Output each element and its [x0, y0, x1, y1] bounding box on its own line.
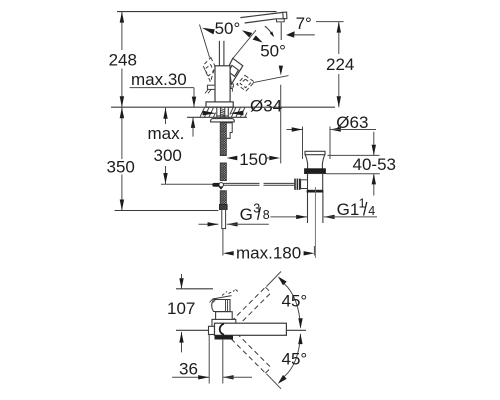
right dashed knob inner [240, 79, 250, 87]
drain trumpet neck [305, 155, 325, 169]
G3/8 dim arrows [199, 223, 219, 225]
150 left arrowhead [227, 156, 238, 160]
centerline [176, 329, 306, 331]
upper arm stub line [267, 272, 282, 287]
deck bottom line [187, 116, 247, 118]
248 top arrowhead [120, 12, 124, 23]
plan handle slanted top line [213, 296, 232, 299]
dark fill under joint [215, 335, 234, 339]
svg-text:36: 36 [179, 360, 198, 379]
svg-text:45°: 45° [282, 350, 308, 369]
svg-text:4: 4 [368, 204, 375, 218]
svg-text:50°: 50° [215, 19, 241, 38]
max.30 up arrow below deck [192, 117, 194, 136]
224 ref line [316, 21, 344, 23]
rod connector capsule [212, 183, 223, 187]
svg-text:300: 300 [154, 146, 182, 165]
drain o-ring band [305, 169, 326, 174]
350 top arrowhead [120, 107, 124, 118]
spout bottom edge [245, 19, 277, 23]
7 deg label underline [293, 34, 315, 36]
7 deg arc arrowhead [270, 31, 274, 37]
max.180 dim [222, 229, 224, 256]
50deg second leader down arrow [279, 66, 283, 76]
plan handle ghost dashes [222, 290, 238, 296]
max.30 underline [130, 87, 195, 89]
pop-up rod to drain [224, 182, 260, 184]
150 right arrowhead [269, 156, 280, 160]
50deg radius leader to solid knob [233, 30, 256, 58]
tailpipe [307, 193, 309, 224]
224 dim line [338, 22, 340, 54]
107 dim [181, 274, 183, 289]
braided hose upper segment [220, 123, 226, 156]
spout top edge [240, 12, 283, 17]
body left hatch marks [205, 90, 211, 94]
drain knob [294, 179, 300, 190]
threaded rod coil [220, 109, 224, 118]
plan left tab [209, 326, 215, 334]
svg-text:max.180: max.180 [236, 244, 301, 263]
body left protrusion [207, 85, 215, 89]
left dashed knob inner [205, 65, 214, 76]
faucet body [215, 66, 230, 102]
7 deg label arrow [286, 31, 295, 37]
lower dashed arm [225, 327, 271, 373]
svg-text:Ø34: Ø34 [250, 96, 282, 115]
svg-text:224: 224 [326, 55, 354, 74]
body right small steps [230, 84, 233, 92]
solid knob outer [229, 58, 243, 84]
svg-text:150: 150 [239, 150, 267, 169]
svg-text:8: 8 [263, 208, 270, 222]
handle stem [218, 41, 220, 66]
G1 1/4 dim arrows [271, 216, 308, 218]
hose nut [220, 205, 228, 210]
vertical line below aerator (7deg ref) [280, 22, 282, 40]
50deg arc arrowhead up-left [242, 30, 252, 37]
svg-text:45°: 45° [282, 292, 308, 311]
max.30 down arrow [193, 88, 195, 108]
max300 bottom ref line [161, 183, 213, 185]
50deg arc arrowhead down-right [253, 35, 263, 42]
svg-text:50°: 50° [260, 42, 286, 61]
base flange [206, 102, 233, 107]
svg-text:G: G [240, 205, 253, 224]
solid knob inner [229, 65, 239, 76]
deck top line [111, 106, 335, 108]
40-53 dim [328, 154, 380, 156]
spout end cap [283, 12, 287, 19]
150 ext line [280, 85, 282, 164]
svg-text:Ø63: Ø63 [336, 113, 368, 132]
50deg left leader line [200, 25, 210, 58]
350 bottom ref line [115, 210, 219, 212]
lower arm stub line [267, 374, 282, 389]
tailpipe center line [314, 187, 316, 258]
plan body block narrow [216, 312, 233, 320]
svg-text:350: 350 [107, 158, 135, 177]
248 dim line [121, 12, 123, 50]
braided hose second segment [220, 163, 226, 181]
50deg second leader line to right dashed knob [253, 76, 289, 83]
right dashed knob outer [237, 75, 255, 91]
drain cap [305, 151, 325, 154]
pop-up rod guide steps [227, 123, 233, 138]
upper 45 arc [284, 284, 301, 328]
drain side port [301, 180, 308, 189]
50deg left bold arrowhead [202, 28, 215, 35]
svg-text:7°: 7° [296, 14, 312, 33]
hose pipe [222, 210, 226, 229]
ball joint [219, 183, 223, 187]
svg-text:max.30: max.30 [131, 70, 187, 89]
350 dim line [121, 107, 123, 159]
plan body block wide [212, 319, 236, 327]
dark wedge below ball [219, 187, 224, 190]
plan handle hatch marks [210, 298, 217, 302]
svg-text:107: 107 [167, 299, 195, 318]
top reference line [117, 11, 277, 13]
mounting washer below deck [211, 119, 235, 122]
Ø63 dim [287, 129, 303, 131]
braided hose lower segment [220, 191, 226, 205]
350 bottom arrowhead [120, 200, 124, 211]
lower 45 arc [284, 334, 301, 377]
deck hatch left block [200, 108, 216, 118]
7 deg arc [265, 26, 273, 36]
shank sides [216, 107, 218, 117]
pivot arc [220, 324, 224, 335]
svg-text:40-53: 40-53 [353, 155, 396, 174]
drain shoulder [307, 190, 324, 192]
max.300 dim [165, 108, 167, 124]
upper dashed arm [225, 287, 271, 333]
svg-text:G1: G1 [337, 200, 360, 219]
clamp arrow left [203, 111, 216, 116]
svg-text:1: 1 [359, 196, 366, 210]
deck hatch right block [230, 108, 247, 118]
plan spout bar [215, 323, 287, 335]
svg-text:max.: max. [148, 124, 185, 143]
aerator [276, 19, 284, 22]
248 bottom arrowhead [120, 96, 124, 107]
left dashed knob outer [203, 58, 215, 83]
drain body [308, 174, 323, 191]
36 dim [208, 335, 210, 384]
plan handle grip [212, 300, 230, 312]
clamp arrow right [230, 111, 243, 116]
svg-text:248: 248 [109, 51, 137, 70]
